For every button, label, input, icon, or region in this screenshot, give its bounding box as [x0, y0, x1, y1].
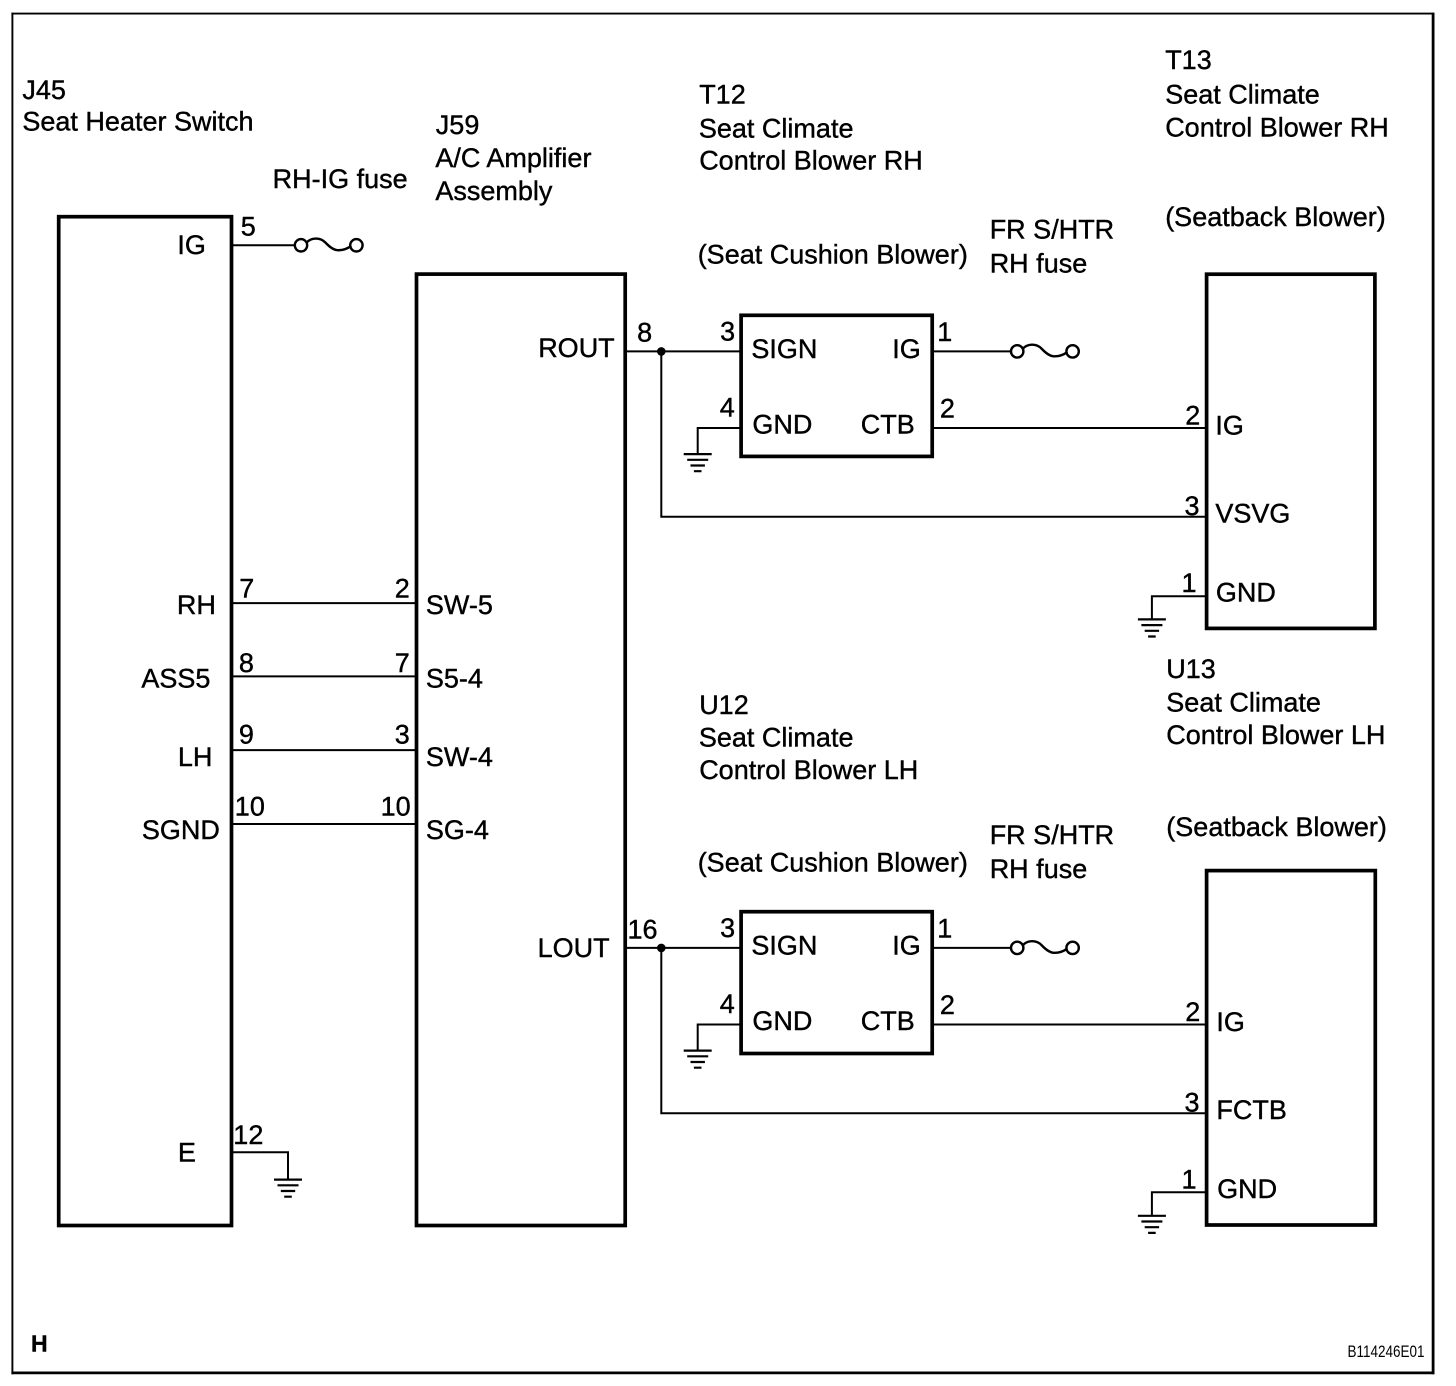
svg-text:4: 4 — [720, 989, 735, 1019]
svg-text:Control Blower RH: Control Blower RH — [1165, 112, 1389, 142]
svg-text:3: 3 — [720, 317, 735, 347]
svg-text:FR S/HTR: FR S/HTR — [990, 215, 1114, 245]
svg-text:Control Blower LH: Control Blower LH — [1166, 720, 1385, 750]
svg-text:16: 16 — [628, 915, 658, 945]
svg-text:CTB: CTB — [861, 1006, 915, 1036]
svg-text:T13: T13 — [1165, 45, 1212, 75]
svg-text:T12: T12 — [699, 79, 746, 109]
svg-text:H: H — [31, 1331, 48, 1357]
svg-text:IG: IG — [892, 334, 921, 364]
svg-text:RH: RH — [177, 590, 216, 620]
svg-text:1: 1 — [937, 914, 952, 944]
svg-text:3: 3 — [720, 913, 735, 943]
svg-text:2: 2 — [1185, 401, 1200, 431]
svg-text:Seat Climate: Seat Climate — [699, 114, 854, 144]
svg-text:SW-5: SW-5 — [426, 590, 493, 620]
svg-text:GND: GND — [1217, 1174, 1277, 1204]
svg-text:2: 2 — [395, 574, 410, 604]
svg-text:SIGN: SIGN — [751, 334, 817, 364]
svg-text:RH fuse: RH fuse — [990, 249, 1088, 279]
svg-text:SG-4: SG-4 — [426, 815, 489, 845]
svg-text:A/C Amplifier: A/C Amplifier — [435, 143, 591, 173]
svg-text:10: 10 — [235, 792, 265, 822]
svg-text:1: 1 — [937, 317, 952, 347]
svg-text:4: 4 — [720, 393, 735, 423]
svg-text:Seat Heater Switch: Seat Heater Switch — [22, 107, 253, 137]
svg-text:Seat Climate: Seat Climate — [1165, 79, 1320, 109]
svg-text:(Seatback Blower): (Seatback Blower) — [1165, 202, 1386, 232]
svg-text:FR S/HTR: FR S/HTR — [990, 820, 1114, 850]
svg-text:3: 3 — [395, 720, 410, 750]
svg-text:10: 10 — [381, 792, 411, 822]
svg-text:3: 3 — [1184, 491, 1199, 521]
svg-text:S5-4: S5-4 — [426, 664, 483, 694]
svg-text:Control Blower RH: Control Blower RH — [699, 146, 923, 176]
svg-text:SGND: SGND — [142, 815, 220, 845]
svg-text:2: 2 — [940, 394, 955, 424]
svg-text:VSVG: VSVG — [1215, 498, 1290, 528]
svg-text:ROUT: ROUT — [538, 333, 615, 363]
svg-text:(Seat Cushion Blower): (Seat Cushion Blower) — [698, 239, 968, 269]
svg-text:SIGN: SIGN — [751, 930, 817, 960]
svg-text:IG: IG — [1216, 1007, 1245, 1037]
svg-text:2: 2 — [940, 990, 955, 1020]
svg-text:GND: GND — [752, 409, 812, 439]
svg-text:J45: J45 — [22, 75, 66, 105]
svg-text:E: E — [178, 1138, 196, 1168]
svg-text:CTB: CTB — [861, 409, 915, 439]
svg-text:IG: IG — [177, 230, 206, 260]
svg-text:7: 7 — [239, 574, 254, 604]
svg-text:9: 9 — [239, 720, 254, 750]
svg-text:J59: J59 — [436, 110, 480, 140]
svg-text:2: 2 — [1185, 997, 1200, 1027]
svg-text:(Seat Cushion Blower): (Seat Cushion Blower) — [698, 847, 968, 877]
svg-text:Seat Climate: Seat Climate — [699, 723, 854, 753]
svg-text:8: 8 — [239, 648, 254, 678]
svg-text:SW-4: SW-4 — [426, 742, 493, 772]
svg-text:1: 1 — [1181, 1164, 1196, 1194]
svg-text:LH: LH — [178, 742, 213, 772]
svg-text:1: 1 — [1181, 568, 1196, 598]
svg-text:LOUT: LOUT — [538, 933, 610, 963]
svg-text:7: 7 — [395, 648, 410, 678]
svg-text:RH fuse: RH fuse — [990, 854, 1088, 884]
svg-text:12: 12 — [233, 1120, 263, 1150]
svg-text:IG: IG — [1215, 410, 1244, 440]
svg-text:GND: GND — [1216, 578, 1276, 608]
svg-text:Assembly: Assembly — [435, 176, 553, 206]
svg-text:RH-IG fuse: RH-IG fuse — [273, 164, 408, 194]
svg-text:5: 5 — [241, 211, 256, 241]
svg-text:ASS5: ASS5 — [141, 664, 210, 694]
svg-text:(Seatback Blower): (Seatback Blower) — [1166, 812, 1387, 842]
svg-text:U13: U13 — [1166, 654, 1216, 684]
svg-text:Control Blower LH: Control Blower LH — [699, 755, 918, 785]
svg-text:U12: U12 — [699, 690, 749, 720]
svg-text:IG: IG — [892, 930, 921, 960]
svg-text:Seat Climate: Seat Climate — [1166, 688, 1321, 718]
svg-text:8: 8 — [637, 318, 652, 348]
svg-text:B114246E01: B114246E01 — [1348, 1343, 1425, 1361]
svg-text:FCTB: FCTB — [1216, 1095, 1287, 1125]
svg-text:3: 3 — [1184, 1087, 1199, 1117]
svg-text:GND: GND — [752, 1006, 812, 1036]
